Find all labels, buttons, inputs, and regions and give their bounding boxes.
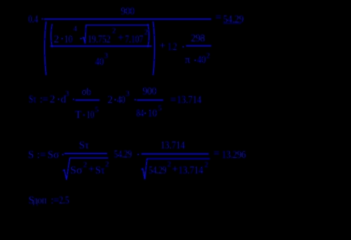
svg-text:=: = [214,149,220,160]
svg-text:3: 3 [65,89,69,98]
svg-text:900: 900 [121,6,135,17]
svg-text:5: 5 [95,105,99,114]
svg-text:10: 10 [64,34,72,45]
svg-text:σb: σb [82,87,91,98]
svg-text:π: π [185,55,191,66]
svg-text:=: = [42,95,48,106]
svg-text:+: + [160,41,166,52]
svg-text:2: 2 [167,159,171,168]
svg-text:=: = [215,13,221,24]
svg-text:+: + [172,164,178,175]
svg-text:+: + [88,164,94,175]
svg-text:2.5: 2.5 [59,196,69,207]
svg-text:3: 3 [104,51,108,60]
svg-text:13.714: 13.714 [177,95,202,106]
svg-text:2: 2 [83,160,87,169]
svg-text:=: = [40,150,46,161]
svg-text:2: 2 [50,95,55,106]
svg-text:=: = [170,95,176,106]
svg-text:7.107: 7.107 [125,34,143,45]
svg-text:10: 10 [87,110,95,121]
svg-text:0.4: 0.4 [28,14,38,25]
svg-text:4: 4 [73,24,77,33]
svg-text:Sτ: Sτ [79,140,90,151]
svg-text:2: 2 [108,95,113,106]
svg-text:2: 2 [205,160,209,169]
svg-text:84: 84 [136,108,144,119]
svg-text:Sσ: Sσ [48,150,60,161]
svg-text:2: 2 [144,27,148,36]
svg-text:54.29: 54.29 [149,165,167,176]
svg-text:2: 2 [112,26,116,35]
svg-text:2: 2 [206,51,210,60]
svg-text:S: S [28,150,34,161]
svg-text:13.714: 13.714 [161,141,186,152]
svg-text:13.296: 13.296 [222,150,246,161]
svg-text:19.752: 19.752 [88,34,111,45]
svg-text:40: 40 [197,55,206,66]
svg-text:13.714: 13.714 [178,165,203,176]
svg-text:5: 5 [158,104,162,113]
svg-text:54.29: 54.29 [114,150,132,161]
svg-text:Sτ: Sτ [29,95,37,106]
svg-text:Sσ: Sσ [70,165,82,176]
svg-text:40: 40 [95,57,104,68]
svg-text:доп: доп [33,196,47,207]
svg-text:2: 2 [105,160,109,169]
svg-text:1.2: 1.2 [168,42,177,53]
svg-text:Sτ: Sτ [95,165,105,176]
svg-text:10: 10 [148,108,157,119]
svg-text:+: + [118,33,124,44]
svg-text:298: 298 [191,34,205,45]
svg-text:40: 40 [117,95,125,106]
svg-text:3: 3 [126,89,130,98]
svg-text:2: 2 [54,34,59,45]
svg-text:T: T [75,110,82,121]
svg-text:900: 900 [143,87,157,98]
